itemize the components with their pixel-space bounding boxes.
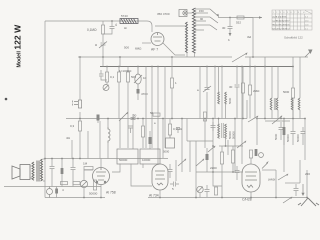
svg-text:62 14 8,2 35 91 2: 62 14 8,2 35 91 2: [272, 28, 290, 30]
wire box verticals: [120, 119, 146, 149]
capacitor C30: [128, 126, 133, 133]
junctions upper mid: [206, 66, 256, 68]
wire x187: [186, 119, 188, 142]
svg-text:5000: 5000: [283, 90, 290, 94]
coil taps: [195, 9, 210, 30]
svg-text:50000: 50000: [232, 131, 236, 139]
wire x182: [181, 119, 183, 159]
table diagonal mark: [305, 11, 312, 14]
svg-text:Al 734: Al 734: [149, 194, 159, 198]
arrow end: [259, 16, 262, 18]
coil L1 hatched: [120, 19, 138, 24]
svg-text:1,2 85 40 62 18 7: 1,2 85 40 62 18 7: [272, 20, 290, 22]
svg-text:50000: 50000: [119, 158, 128, 162]
wires U4: [250, 158, 252, 198]
switch S5: [248, 116, 258, 122]
wires L7 down: [272, 110, 278, 119]
capacitor C26: [168, 164, 173, 178]
capacitor C15: [291, 127, 296, 145]
svg-text:552: 552: [236, 21, 241, 25]
coil L4 bumps: [108, 127, 110, 143]
right side verticals: [250, 57, 305, 172]
lamp LP1: [179, 10, 187, 17]
wire top bus: [45, 20, 147, 22]
svg-text:2200: 2200: [210, 166, 217, 170]
pot P3: [197, 186, 203, 192]
coil L3 zigzag: [186, 22, 188, 53]
capacitor C27: [176, 128, 180, 134]
verticals upper mid: [200, 67, 255, 119]
wire right verticals bottom: [276, 160, 307, 198]
svg-text:AF 7: AF 7: [151, 48, 158, 52]
coil pair L9: [218, 92, 227, 104]
svg-text:50000: 50000: [296, 134, 300, 142]
wire bus y66 dark: [100, 66, 293, 68]
capacitor C1: [103, 21, 115, 34]
resistor R7 horizontal: [84, 167, 93, 170]
svg-text:5743: 5743: [121, 14, 128, 18]
wire short: [285, 182, 300, 184]
wire x80 bus118: [79, 112, 81, 121]
switch S6: [278, 174, 288, 180]
box C9 10000: [140, 149, 160, 164]
junction: [79, 118, 81, 120]
jack J1: [73, 100, 82, 108]
junctions y158: [51, 158, 81, 160]
svg-text:Al 758: Al 758: [106, 191, 116, 195]
oval tube U4: [242, 164, 260, 192]
wire left drop: [83, 188, 85, 198]
arrow up right: [262, 161, 269, 169]
wire bottom bus: [45, 197, 308, 199]
svg-text:5000: 5000: [163, 150, 170, 154]
trimmer cap C21: [203, 86, 211, 92]
speaker wires: [30, 159, 45, 181]
resistor R12: [248, 85, 251, 95]
electro C33 with circle: [255, 149, 264, 157]
svg-text:0,3: 0,3: [70, 124, 75, 128]
svg-text:2MΩ: 2MΩ: [253, 89, 260, 93]
resistor R20: [105, 67, 108, 85]
capacitor C11: [170, 182, 179, 187]
pot P1 circle: [47, 187, 53, 198]
tuning gang C6: [134, 67, 142, 90]
wire x100 down: [99, 121, 101, 159]
svg-text:4700: 4700: [141, 92, 148, 96]
box C8 50000: [117, 149, 138, 164]
switch S7 mains: [283, 197, 292, 203]
wire verticals mid: [119, 57, 121, 67]
wire box2 drop corner: [131, 164, 152, 187]
coil bottom wires: [187, 53, 195, 57]
capacitor C28: [294, 184, 299, 196]
switch S9 on bus: [232, 52, 248, 62]
wire tube to coil: [163, 43, 185, 55]
electro C32: [283, 121, 286, 145]
wire L9 ends: [219, 67, 226, 119]
capacitor C5: [131, 114, 136, 123]
svg-text:5000: 5000: [274, 133, 278, 140]
wire speaker bottom: [4, 186, 101, 188]
wire L4 down: [107, 143, 109, 159]
junction: [118, 66, 120, 68]
arrow mid: [208, 146, 216, 152]
speaker SP: [12, 165, 30, 180]
resistor R23: [141, 119, 144, 149]
resistor R27: [214, 187, 217, 195]
svg-text:220: 220: [305, 172, 310, 176]
svg-text:0,1MΩ: 0,1MΩ: [87, 28, 97, 32]
wire x163: [162, 119, 164, 159]
wire L6 ends: [219, 119, 226, 147]
mains plug V: [298, 198, 319, 206]
svg-text:150: 150: [199, 9, 204, 13]
coil pair L8: [291, 98, 300, 110]
title Modell 122 W: [13, 24, 23, 68]
svg-text:Schaltbild 122: Schaltbild 122: [284, 36, 303, 40]
wire bus y158: [45, 158, 168, 160]
wire x72 from mid: [71, 140, 73, 159]
capacitor C31: [235, 166, 240, 180]
wire y121: [265, 120, 290, 122]
svg-text:a: a: [95, 43, 97, 47]
capacitor C16: [301, 127, 306, 145]
svg-text:500: 500: [124, 46, 129, 50]
wire x247: [246, 100, 248, 119]
resistor R2 inline: [237, 16, 244, 19]
wire R2 right: [244, 17, 262, 19]
pot P2: [80, 180, 87, 187]
svg-text:50000: 50000: [286, 134, 290, 142]
wire x108 bus: [107, 119, 109, 128]
capacitor C22: [235, 85, 240, 92]
wire bus y57: [78, 56, 308, 58]
electrolytic C13: [206, 148, 209, 172]
wire right mid: [262, 169, 276, 171]
svg-text:5000: 5000: [228, 97, 232, 104]
capacitor C24: [61, 159, 64, 187]
page dot: [5, 98, 8, 101]
coil pair L7: [270, 98, 278, 110]
coil L5: [220, 146, 223, 172]
resistor R4 beside: [153, 113, 160, 116]
wire tube top to lamp row: [155, 25, 185, 27]
switch S8: [237, 141, 246, 149]
trimmer TC1: [103, 85, 109, 91]
svg-text:95 3,4 75 28 50 6: 95 3,4 75 28 50 6: [272, 24, 290, 26]
coil pair L6: [218, 123, 227, 138]
resistor R24: [126, 67, 129, 119]
svg-text:10000: 10000: [142, 158, 151, 162]
capacitor C14: [279, 122, 284, 140]
svg-text:30: 30: [229, 85, 233, 89]
svg-text:90: 90: [200, 17, 204, 21]
table top row labels: [273, 12, 310, 31]
capacitor C3 with ground arrow: [228, 18, 233, 37]
electrolytic C29: [149, 131, 152, 149]
wire bus y172: [196, 171, 243, 173]
svg-text:4 2 8 1 6 3 9 5: 4 2 8 1 6 3 9 5: [272, 16, 287, 18]
wire tube left: [142, 42, 151, 44]
resistor R26 tiny: [73, 182, 80, 185]
svg-text:tbd: tbd: [247, 35, 252, 39]
svg-text:Hi: Hi: [124, 26, 127, 30]
wire pickup jack drop: [79, 57, 81, 100]
wire y146: [219, 145, 243, 147]
svg-text:(AM)!: (AM)!: [268, 178, 275, 182]
switch S3: [178, 158, 186, 166]
svg-text:0,1: 0,1: [110, 75, 115, 79]
svg-text:350 4700: 350 4700: [157, 12, 170, 16]
resistor R3: [78, 121, 81, 159]
voltage selector arrow: [301, 184, 304, 196]
wire switch to bus: [218, 17, 253, 19]
wires L8 down: [293, 110, 300, 119]
capacitor C20 below bus: [99, 70, 107, 80]
svg-text:30: 30: [222, 26, 226, 30]
wire drops to bottom bus: [213, 172, 222, 198]
resistor R21: [117, 67, 120, 119]
wire y141: [187, 140, 213, 142]
wires tube U2: [84, 159, 101, 198]
svg-text:C/H28: C/H28: [242, 198, 252, 202]
wire tap drop: [252, 18, 254, 58]
wire lamp row: [187, 12, 192, 14]
wire x88: [87, 131, 89, 159]
junction: [229, 17, 231, 19]
resistor R8: [93, 180, 96, 190]
antenna symbol right: [305, 50, 313, 58]
wire tube grid from top bus: [147, 21, 152, 32]
resistor R9: [203, 112, 206, 121]
junction: [249, 66, 251, 68]
labels L6 vertical: [228, 131, 236, 139]
trimmer C2: [99, 40, 107, 52]
resistor R14: [249, 150, 252, 158]
capacitor C4 on bus118: [97, 115, 100, 124]
wire x143: [142, 164, 144, 169]
wires tube U3: [159, 190, 161, 198]
wire P3: [199, 193, 201, 198]
capacitor C23: [50, 159, 55, 187]
box small: [166, 135, 175, 148]
coil L2 tall zigzag: [193, 8, 196, 53]
junction: [106, 66, 108, 68]
svg-text:50: 50: [150, 111, 154, 115]
resistor R5: [170, 78, 173, 119]
svg-text:1=1000Ω: 1=1000Ω: [119, 69, 132, 73]
switch S2 diag: [119, 112, 128, 121]
switch S10: [272, 115, 282, 124]
resistor R10: [231, 146, 234, 172]
svg-text:30: 30: [133, 114, 137, 118]
wire bus y118: [66, 118, 305, 120]
svg-text:6MΩ: 6MΩ: [135, 47, 142, 51]
svg-text:1M: 1M: [83, 162, 88, 166]
tube U2: [93, 168, 110, 185]
transformer T1: [32, 159, 43, 182]
resistor R11: [168, 119, 171, 136]
junction: [102, 56, 104, 58]
switch S4: [196, 158, 204, 166]
electro C10: [55, 187, 58, 198]
electrolytic C7: [137, 89, 140, 100]
wire x112 down: [111, 20, 113, 22]
wire left vertical antenna lead: [44, 21, 46, 198]
switch S1 arms: [210, 9, 219, 30]
capacitor C17: [205, 185, 210, 197]
oval tube U3: [152, 164, 168, 190]
resistor R22: [241, 83, 244, 93]
mid bottom verticals: [176, 67, 242, 198]
table top right: [272, 10, 312, 30]
wire node x103 to bus: [102, 52, 104, 67]
wire box1 drop: [112, 164, 120, 173]
tube U1 AF7: [151, 33, 164, 46]
svg-text:4: 4: [115, 23, 117, 27]
capacitor C25: [71, 159, 76, 187]
wire transformer to x47: [44, 158, 46, 160]
resistor R25 tiny: [61, 182, 68, 185]
table dense rows: [272, 16, 290, 30]
svg-text:50000: 50000: [89, 192, 98, 196]
resistor R13: [291, 88, 294, 98]
resistor R1 0.1M: [101, 21, 104, 40]
capacitor C12: [211, 122, 216, 131]
